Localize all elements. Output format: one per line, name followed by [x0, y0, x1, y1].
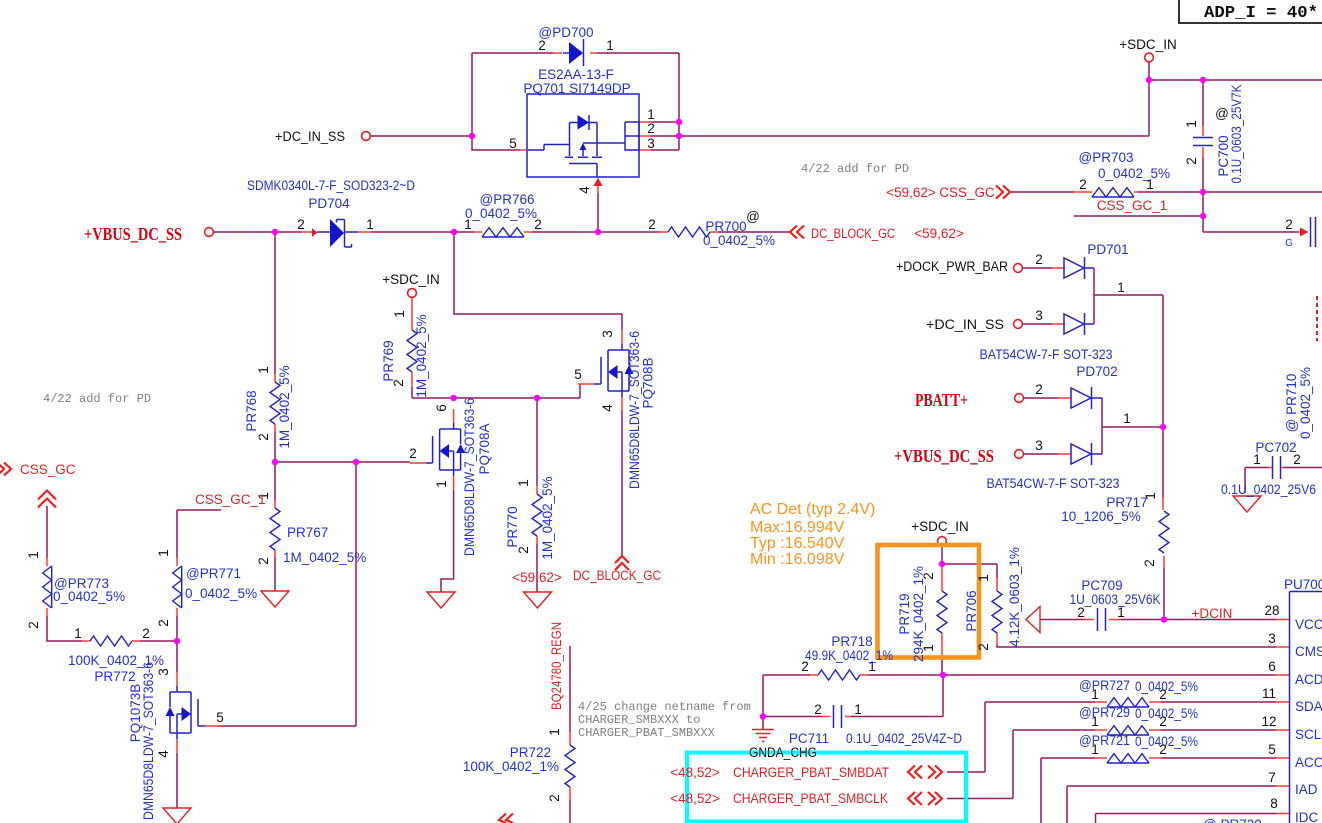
svg-text:1: 1 — [868, 659, 876, 674]
port circle +SDC_IN right — [1145, 53, 1154, 62]
svg-text:7: 7 — [1268, 770, 1276, 785]
svg-text:2: 2 — [409, 446, 417, 461]
svg-text:CSS_GC: CSS_GC — [20, 462, 76, 477]
junction source bus PR770 — [534, 395, 540, 401]
svg-text:@PD700: @PD700 — [539, 25, 594, 40]
pin stub PQ701 pin4 with arrow — [597, 186, 599, 193]
resistor PR773 zero ohm — [43, 566, 52, 608]
svg-text:5: 5 — [1268, 742, 1276, 757]
svg-text:11: 11 — [1262, 686, 1276, 701]
svg-text:1M_0402_5%: 1M_0402_5% — [414, 314, 429, 397]
transistor PQ708A — [410, 409, 466, 490]
svg-text:1: 1 — [1184, 120, 1199, 128]
svg-text:5: 5 — [509, 136, 517, 151]
diode PD700 — [563, 39, 584, 66]
svg-text:1: 1 — [921, 644, 936, 652]
pin stubs PD700 — [553, 52, 597, 54]
svg-text:3: 3 — [600, 330, 615, 338]
svg-text:@PR771: @PR771 — [186, 566, 241, 581]
svg-text:5: 5 — [216, 710, 224, 725]
svg-text:2: 2 — [1142, 559, 1157, 567]
svg-text:2: 2 — [801, 659, 809, 674]
svg-text:6: 6 — [1268, 659, 1276, 674]
svg-text:DC_BLOCK_GC: DC_BLOCK_GC — [811, 226, 895, 241]
junction CSS_GC_1 — [1200, 213, 1206, 219]
port circle +SDC_IN mid — [408, 289, 417, 298]
junction source bus PQ708A — [450, 395, 456, 401]
wire CMSRC row pin3 — [997, 645, 1276, 647]
svg-text:2: 2 — [1035, 252, 1043, 267]
svg-text:4.12K_0603_1%: 4.12K_0603_1% — [1007, 547, 1022, 647]
svg-text:<48,52>: <48,52> — [670, 765, 720, 780]
svg-text:4: 4 — [156, 750, 171, 758]
junction gate line — [353, 459, 359, 465]
pin stubs PR706 — [996, 578, 998, 645]
svg-text:2: 2 — [256, 433, 271, 441]
capacitor PC711 — [834, 705, 842, 728]
svg-text:5: 5 — [574, 367, 582, 382]
red dashed fragment right edge — [1316, 296, 1318, 341]
pin stubs PC702 — [1268, 467, 1284, 469]
svg-text:3: 3 — [647, 136, 655, 151]
pin stub right edge cap with arrow — [1298, 231, 1301, 233]
svg-text:AC Det (typ 2.4V): AC Det (typ 2.4V) — [750, 501, 875, 518]
svg-text:2: 2 — [538, 38, 546, 53]
wire PR768 branch — [274, 232, 276, 462]
wire CSS_GC left branch — [47, 506, 177, 641]
arrow PQ701 pin4 — [594, 178, 603, 187]
svg-text:0.1U_0402_25V6: 0.1U_0402_25V6 — [1221, 482, 1316, 497]
svg-text:0_0402_5%: 0_0402_5% — [185, 586, 257, 601]
svg-text:CHARGER_SMBXXX to: CHARGER_SMBXXX to — [578, 713, 700, 727]
resistor PR729 zero ohm — [1107, 726, 1149, 735]
svg-text:+DC_IN_SS: +DC_IN_SS — [275, 129, 345, 144]
svg-text:2: 2 — [1285, 217, 1293, 232]
wire PD700 bypass loop top — [472, 53, 679, 150]
svg-text:PQ701 SI7149DP: PQ701 SI7149DP — [523, 81, 630, 96]
svg-text:1: 1 — [156, 549, 171, 557]
svg-text:2: 2 — [547, 794, 562, 802]
svg-text:PD704: PD704 — [308, 196, 350, 211]
wire PD701 output — [1022, 268, 1163, 427]
wire PC711 row — [763, 675, 943, 717]
wire PD701 cathodes — [1085, 268, 1095, 324]
svg-text:0_0402_5%: 0_0402_5% — [1298, 367, 1313, 439]
svg-text:6: 6 — [434, 404, 449, 412]
pin stubs PR772 — [82, 640, 140, 642]
svg-text:2: 2 — [391, 379, 406, 387]
junction VBUS at PQ701 pin4 — [595, 229, 601, 235]
svg-text:@PR729: @PR729 — [1079, 705, 1130, 720]
svg-text:1: 1 — [464, 217, 472, 232]
svg-text:1: 1 — [74, 626, 82, 641]
svg-text:IAD: IAD — [1295, 782, 1318, 797]
pin stubs PR766 — [474, 231, 532, 233]
svg-text:ADP_I = 40*: ADP_I = 40* — [1204, 4, 1318, 23]
svg-text:@PR703: @PR703 — [1079, 150, 1134, 165]
wire source bus under PR769 — [412, 384, 580, 398]
svg-text:+DCIN: +DCIN — [1192, 606, 1233, 621]
svg-text:2: 2 — [976, 643, 991, 651]
svg-text:CHARGER_PBAT_SMBXXX: CHARGER_PBAT_SMBXXX — [578, 726, 715, 740]
svg-text:0_0402_5%: 0_0402_5% — [703, 233, 775, 248]
svg-text:+SDC_IN: +SDC_IN — [911, 519, 968, 534]
svg-text:1: 1 — [1253, 452, 1261, 467]
svg-text:@: @ — [1215, 106, 1229, 121]
svg-text:2: 2 — [516, 546, 531, 554]
svg-text:PR700: PR700 — [705, 219, 746, 234]
junction VBUS at PQ708B drain — [451, 229, 457, 235]
svg-text:PBATT+: PBATT+ — [915, 390, 968, 410]
svg-text:+VBUS_DC_SS: +VBUS_DC_SS — [84, 224, 182, 244]
cyan highlight box — [687, 753, 966, 822]
svg-text:1: 1 — [854, 702, 862, 717]
resistor PR767 — [270, 508, 280, 550]
port circle +DC_IN_SS right — [1014, 320, 1023, 329]
svg-text:1: 1 — [516, 479, 531, 487]
svg-text:2: 2 — [1184, 157, 1199, 165]
svg-text:ACD: ACD — [1295, 672, 1322, 687]
svg-text:Typ :16.540V: Typ :16.540V — [750, 535, 845, 552]
svg-text:1: 1 — [976, 574, 991, 582]
transistor PQ1073B — [166, 672, 222, 753]
svg-text:PR772: PR772 — [94, 669, 135, 684]
svg-text:28: 28 — [1264, 603, 1279, 618]
wire gate line PQ708A — [275, 461, 410, 463]
svg-text:PR706: PR706 — [964, 590, 979, 631]
junction PQ701 pin1 — [676, 119, 682, 125]
svg-text:1: 1 — [1091, 742, 1099, 757]
svg-text:3: 3 — [156, 668, 171, 676]
pin stubs PC711 — [822, 716, 851, 718]
svg-text:1: 1 — [1146, 177, 1154, 192]
resistor PR700 — [668, 227, 710, 237]
wire PR706 branch — [942, 564, 997, 578]
wire PC702 row — [1245, 468, 1322, 494]
svg-text:2: 2 — [1077, 605, 1085, 620]
ground PC702 — [1233, 496, 1261, 512]
svg-text:10_1206_5%: 10_1206_5% — [1061, 509, 1141, 524]
svg-text:1: 1 — [26, 551, 41, 559]
offpage chevrons bottom edge — [499, 814, 513, 823]
diode PD701 B — [1064, 313, 1085, 335]
svg-text:PR769: PR769 — [381, 340, 396, 381]
svg-text:2: 2 — [647, 121, 655, 136]
svg-text:PQ708B: PQ708B — [641, 357, 656, 408]
svg-text:2: 2 — [1035, 382, 1043, 397]
svg-text:1: 1 — [392, 310, 407, 318]
pin stubs PR700 — [660, 231, 718, 233]
ground PR770 — [524, 592, 552, 608]
svg-text:BQ24780_REGN: BQ24780_REGN — [549, 622, 564, 710]
wire PR717 column — [1163, 427, 1164, 620]
wire PQ701 pin1/2/3 to bracket — [651, 122, 1149, 150]
orange highlight box — [878, 545, 980, 658]
junction PR768 bottom — [272, 459, 278, 465]
svg-text:PC709: PC709 — [1081, 578, 1122, 593]
svg-text:Max:16.994V: Max:16.994V — [750, 519, 845, 536]
junction CSS_GC — [1200, 189, 1206, 195]
svg-text:@ PR710: @ PR710 — [1284, 374, 1299, 433]
wire PR769 column — [411, 387, 413, 398]
svg-text:@PR721: @PR721 — [1079, 733, 1130, 748]
port circle +VBUS_DC_SS left — [205, 228, 214, 237]
junction DC_IN_SS — [469, 133, 475, 139]
wire PR767 to ground — [274, 462, 276, 591]
resistor PR719 — [937, 591, 947, 633]
svg-text:PR717: PR717 — [1106, 495, 1147, 510]
pin stubs PR773 — [46, 558, 48, 616]
svg-text:SDA: SDA — [1295, 699, 1322, 714]
svg-text:PD702: PD702 — [1076, 364, 1117, 379]
svg-text:@PR727: @PR727 — [1079, 678, 1130, 693]
svg-text:VCC: VCC — [1295, 617, 1322, 632]
port circle +SDC_IN orange — [938, 537, 947, 546]
ground PR767 — [261, 591, 289, 607]
junction PR772 PR771 — [174, 638, 180, 644]
svg-text:CSS_GC_1: CSS_GC_1 — [195, 492, 266, 507]
svg-text:0_0402_5%: 0_0402_5% — [1098, 166, 1170, 181]
offpage chevrons DC_BLOCK_GC row — [790, 226, 804, 239]
ground PQ708A — [427, 592, 455, 608]
pin stubs PR770 — [536, 486, 538, 544]
pin stubs PR718 — [810, 674, 868, 676]
svg-text:CHARGER_PBAT_SMBCLK: CHARGER_PBAT_SMBCLK — [733, 791, 888, 806]
wire +SDC_IN drop at right — [1149, 62, 1322, 137]
wire CSS_GC row right — [1011, 191, 1322, 193]
svg-text:4/25 change netname from: 4/25 change netname from — [578, 700, 751, 714]
svg-text:@PR766: @PR766 — [480, 192, 535, 207]
svg-text:2: 2 — [142, 626, 150, 641]
resistor PR769 — [407, 330, 417, 372]
svg-text:2: 2 — [1159, 742, 1167, 757]
transistor PQ701 internals — [528, 115, 625, 177]
svg-text:2: 2 — [534, 217, 542, 232]
svg-text:<59,62>: <59,62> — [886, 185, 936, 200]
svg-text:2: 2 — [1159, 687, 1167, 702]
wire +DCIN row — [1040, 619, 1276, 621]
svg-text:CHARGER_PBAT_SMBDAT: CHARGER_PBAT_SMBDAT — [733, 765, 889, 780]
port circle +DOCK_PWR_BAR — [1014, 264, 1023, 273]
pin stubs PC709 — [1085, 619, 1121, 621]
svg-text:3: 3 — [1035, 438, 1043, 453]
junction GNDA — [760, 713, 766, 719]
port circle PBATT+ — [1015, 394, 1024, 403]
offpage chevrons CSS_GC right — [996, 186, 1010, 199]
svg-text:1: 1 — [1091, 714, 1099, 729]
wire PR722 column — [569, 646, 571, 823]
svg-text:1: 1 — [547, 728, 562, 736]
svg-text:4: 4 — [600, 404, 615, 412]
pin stubs PR727 — [1095, 701, 1161, 703]
svg-text:2: 2 — [26, 621, 41, 629]
wire PQ1073B drain — [176, 641, 178, 672]
pin stubs PR703 — [1074, 191, 1138, 193]
svg-text:Min :16.098V: Min :16.098V — [750, 551, 845, 568]
wire IADP net — [1067, 786, 1276, 823]
svg-text:ES2AA-13-F: ES2AA-13-F — [538, 67, 614, 82]
svg-text:PR767: PR767 — [287, 525, 328, 540]
wire PQ708A source to ground — [441, 490, 454, 592]
svg-text:+SDC_IN: +SDC_IN — [1119, 37, 1176, 52]
svg-text:2: 2 — [1293, 452, 1301, 467]
svg-text:BAT54CW-7-F SOT-323: BAT54CW-7-F SOT-323 — [980, 347, 1113, 362]
resistor PR771 zero ohm — [173, 566, 182, 608]
capacitor PC702 — [1273, 456, 1281, 479]
svg-text:@: @ — [746, 209, 760, 224]
ADP_I note box — [1179, 0, 1322, 23]
svg-text:1M_0402_5%: 1M_0402_5% — [283, 550, 366, 565]
resistor PR770 — [532, 494, 542, 536]
svg-text:2: 2 — [297, 217, 305, 232]
svg-text:4/22 add for PD: 4/22 add for PD — [43, 392, 151, 406]
junction SDC_IN right — [1146, 77, 1152, 83]
pin bracket PQ701 right — [625, 122, 639, 150]
svg-text:PR770: PR770 — [505, 506, 520, 547]
svg-text:1: 1 — [366, 217, 374, 232]
transistor PQ708B — [578, 330, 634, 411]
arrow before PD704 — [312, 228, 318, 236]
svg-text:DMN65D8LDW-7_SOT363-6: DMN65D8LDW-7_SOT363-6 — [141, 662, 156, 820]
pin stubs PD704 — [302, 231, 371, 233]
svg-text:PR722: PR722 — [510, 745, 551, 760]
pin stub PQ701 pin5 — [520, 149, 527, 151]
svg-text:4: 4 — [577, 186, 592, 194]
port triangle +DCIN — [1026, 607, 1040, 633]
pin stubs PR717 — [1163, 497, 1164, 568]
svg-text:1: 1 — [1123, 411, 1131, 426]
diode PD701 A — [1064, 257, 1085, 279]
svg-text:+SDC_IN: +SDC_IN — [382, 272, 439, 287]
svg-text:49.9K_0402_1%: 49.9K_0402_1% — [805, 648, 893, 663]
pin stubs PR729 — [1095, 729, 1161, 731]
svg-text:2: 2 — [1079, 177, 1087, 192]
wire CSS_GC_1 row right — [1074, 215, 1203, 217]
svg-text:2: 2 — [648, 217, 656, 232]
wire PR770 branch — [536, 398, 538, 592]
pin stubs PR769 — [411, 297, 413, 387]
svg-text:PU700: PU700 — [1284, 577, 1322, 592]
svg-text:<48,52>: <48,52> — [670, 791, 720, 806]
junction VBUS at PR768 — [272, 229, 278, 235]
arrow right edge cap — [1300, 228, 1309, 237]
svg-text:2: 2 — [256, 557, 271, 565]
wire PQ1073B source to ground — [176, 753, 178, 808]
svg-text:3: 3 — [1268, 631, 1276, 646]
offpage chevrons SMBDAT — [908, 766, 942, 779]
offpage chevrons up DC_BLOCK_GC branch — [615, 556, 629, 570]
pin stubs PC700 — [1202, 126, 1204, 157]
wire long vertical to PQ1073B gate — [218, 462, 357, 726]
svg-text:1: 1 — [647, 107, 655, 122]
svg-text:IDC: IDC — [1295, 810, 1319, 823]
svg-text:<59,62>: <59,62> — [512, 570, 562, 585]
op box PQ701 outline — [527, 94, 639, 177]
junction PD702 output — [1160, 424, 1166, 430]
svg-text:3: 3 — [1035, 308, 1043, 323]
resistor PR766 zero ohm — [482, 228, 524, 237]
svg-text:DMN65D8LDW-7_SOT363-6: DMN65D8LDW-7_SOT363-6 — [627, 331, 642, 489]
resistor PR721 zero ohm — [1107, 754, 1149, 763]
wire PQ701 pin4 drop — [597, 193, 599, 232]
resistor PR722 — [565, 745, 575, 787]
svg-text:DMN65D8LDW-7_SOT363-6: DMN65D8LDW-7_SOT363-6 — [462, 398, 477, 556]
svg-text:0.1U_0402_25V4Z~D: 0.1U_0402_25V4Z~D — [846, 731, 962, 746]
capacitor PC709 — [1098, 608, 1106, 631]
svg-text:1: 1 — [1117, 605, 1125, 620]
pin stubs PR768 — [274, 374, 276, 432]
pin stubs PR771 — [176, 558, 178, 616]
svg-text:DC_BLOCK_GC: DC_BLOCK_GC — [573, 568, 661, 583]
offpage chevrons up CSS_GC branch — [38, 491, 56, 508]
svg-text:0_0402_5%: 0_0402_5% — [465, 206, 537, 221]
wire +DC_IN_SS to PQ701 — [371, 136, 521, 150]
svg-text:SDMK0340L-7-F_SOD323-2~D: SDMK0340L-7-F_SOD323-2~D — [247, 178, 415, 193]
port circle +VBUS_DC_SS right — [1015, 450, 1024, 459]
svg-text:CSS_GC_1: CSS_GC_1 — [1097, 198, 1168, 213]
wire CSS_GC_1 left stub — [177, 510, 221, 641]
wire +VBUS_DC_SS row — [213, 231, 790, 233]
resistor PR703 zero ohm — [1092, 188, 1134, 197]
svg-text:GNDA_CHG: GNDA_CHG — [749, 745, 817, 760]
wire PC700 branch vertical — [1203, 80, 1298, 232]
pin stubs PR722 — [569, 732, 571, 800]
svg-text:PR718: PR718 — [831, 634, 872, 649]
svg-text:1M_0402_5%: 1M_0402_5% — [540, 476, 555, 559]
svg-text:+DOCK_PWR_BAR: +DOCK_PWR_BAR — [896, 259, 1008, 274]
ground GNDA_CHG — [752, 730, 774, 742]
pin stubs PR767 — [274, 500, 276, 557]
pin stubs PD701 — [1052, 268, 1064, 324]
svg-text:PC711: PC711 — [789, 731, 829, 746]
wire SDA net — [947, 702, 1276, 772]
junction SDC_IN orange — [939, 561, 945, 567]
svg-text:8: 8 — [1270, 796, 1278, 811]
resistor PR718 — [818, 670, 860, 680]
diode PD702 B — [1071, 443, 1092, 465]
svg-text:2: 2 — [1159, 714, 1167, 729]
wire PD702 cathodes — [1092, 398, 1103, 454]
svg-text:G: G — [1285, 238, 1293, 249]
wire ACOK net — [1041, 758, 1276, 823]
svg-text:+VBUS_DC_SS: +VBUS_DC_SS — [894, 446, 994, 466]
svg-text:1: 1 — [1117, 280, 1125, 295]
svg-text:PD701: PD701 — [1087, 242, 1128, 257]
wire PQ708B source to DC_BLOCK_GC — [621, 411, 623, 555]
pin stubs PQ701 pins 1-3 — [638, 122, 651, 150]
svg-text:12: 12 — [1261, 714, 1276, 729]
svg-text:PR768: PR768 — [244, 390, 259, 431]
svg-text:4/22 add for PD: 4/22 add for PD — [801, 162, 909, 176]
chip PU700 outline — [1290, 592, 1322, 823]
wire IDCHG net — [1096, 814, 1277, 823]
junction PQ701 pin2 — [676, 133, 682, 139]
svg-text:<59,62>: <59,62> — [914, 226, 964, 241]
pin stubs PR719 — [941, 566, 943, 658]
svg-text:1M_0402_5%: 1M_0402_5% — [277, 365, 292, 448]
offpage chevrons SMBCLK — [908, 792, 942, 805]
wire PR718 left drop to GNDA — [762, 675, 764, 729]
svg-text:SCL: SCL — [1295, 727, 1322, 742]
svg-text:+DC_IN_SS: +DC_IN_SS — [926, 317, 1004, 332]
svg-text:1: 1 — [606, 38, 614, 53]
resistor PR706 — [992, 591, 1002, 633]
diode PD704 schottky — [317, 219, 358, 247]
resistor PR768 — [270, 382, 280, 424]
svg-text:2: 2 — [921, 572, 936, 580]
svg-text:0.1U_0603_25V7K: 0.1U_0603_25V7K — [1229, 85, 1244, 184]
pin stubs PR721 — [1095, 757, 1161, 759]
